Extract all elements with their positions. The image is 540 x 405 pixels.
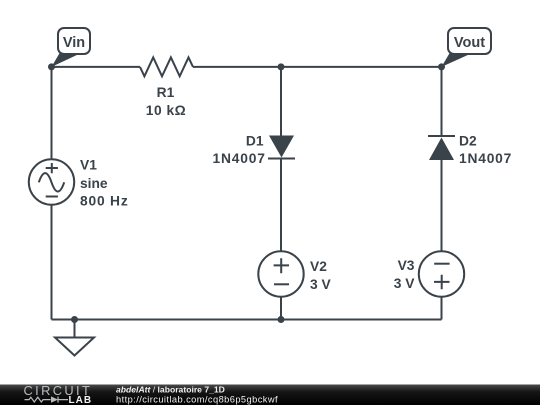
node dot Vin [48, 63, 55, 70]
svg-text:LAB: LAB [69, 395, 93, 405]
V1 minus sign [46, 196, 58, 198]
svg-text:1N4007: 1N4007 [459, 151, 512, 166]
V1 sine symbol [39, 173, 64, 191]
diode D1 cathode bar [268, 158, 295, 160]
wire V2 to bottom rail [280, 297, 282, 320]
node dot Vout [438, 63, 445, 70]
voltage source V3 circle [419, 251, 464, 296]
voltage source V1 circle [29, 159, 74, 204]
V3 plus sign [434, 275, 450, 290]
svg-text:V3: V3 [398, 258, 415, 273]
diode D2 cathode bar [428, 135, 455, 137]
wire D2 to V3 [441, 160, 443, 252]
wire V1 to bottom rail [51, 205, 53, 320]
V3 minus sign [434, 263, 449, 265]
V1 plus sign [46, 163, 58, 173]
ground triangle [55, 338, 94, 356]
node dot ground [71, 316, 78, 323]
Vin flag tail [52, 49, 80, 67]
diode D2 triangle [429, 138, 454, 161]
svg-text:D2: D2 [459, 134, 477, 149]
wire bottom rail [52, 319, 442, 321]
Vin flag box [58, 28, 90, 54]
V2 minus sign [274, 283, 289, 285]
wire top rail right [193, 66, 442, 68]
Vout flag tail [442, 49, 471, 67]
wire V3 to bottom rail [441, 297, 443, 320]
Vout flag box [448, 28, 491, 54]
svg-text:V2: V2 [310, 259, 327, 274]
svg-text:Vin: Vin [63, 35, 85, 51]
wire top to D1 [280, 67, 282, 136]
voltage source V2 circle [258, 251, 303, 296]
svg-text:R1: R1 [157, 85, 175, 100]
node dot top middle [278, 63, 285, 70]
svg-text:http://circuitlab.com/cq8b6p5g: http://circuitlab.com/cq8b6p5gbckwf [116, 395, 278, 405]
wire D1 to V2 [280, 159, 282, 252]
CircuitLab logo resistor-diode glyph [25, 397, 69, 403]
svg-text:10 kΩ: 10 kΩ [146, 103, 186, 118]
resistor R1 [140, 57, 193, 76]
svg-text:3 V: 3 V [310, 277, 332, 292]
svg-text:Vout: Vout [454, 35, 485, 51]
svg-text:sine: sine [80, 176, 108, 191]
svg-text:D1: D1 [246, 134, 264, 149]
svg-text:abdelAtt / laboratoire 7_1D: abdelAtt / laboratoire 7_1D [116, 385, 225, 395]
ground stem [74, 320, 76, 338]
diode D1 triangle [269, 136, 294, 158]
node dot bottom middle [278, 316, 285, 323]
svg-text:1N4007: 1N4007 [213, 151, 266, 166]
V2 plus sign [274, 258, 289, 273]
svg-text:800 Hz: 800 Hz [80, 193, 129, 208]
wire top to D2 [441, 67, 443, 136]
svg-text:V1: V1 [80, 158, 97, 173]
svg-text:3 V: 3 V [394, 276, 416, 291]
wire Vin to V1 [51, 67, 53, 159]
wire top rail left [52, 66, 141, 68]
